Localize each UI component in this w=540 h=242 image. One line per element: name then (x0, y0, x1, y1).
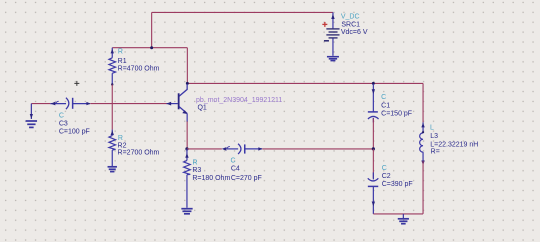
ground GND below R2 (108, 167, 117, 172)
capacitor C1 (368, 84, 379, 122)
svg-text:C=100 pF: C=100 pF (59, 129, 90, 136)
ground GND at C3 input (26, 104, 37, 128)
svg-text:R2: R2 (118, 142, 127, 149)
wire C4 to tank mid node (262, 148, 373, 150)
wire top supply rail (152, 11, 333, 13)
wire R1-top to collector column (112, 47, 187, 49)
ground GND below R3 (181, 209, 192, 214)
svg-text:L=22.32219 nH: L=22.32219 nH (430, 142, 478, 149)
svg-text:V_DC: V_DC (341, 14, 360, 21)
wire base wire from C3 to Q1 (90, 103, 167, 105)
label minus sign (324, 40, 329, 42)
wire emitter down to node (186, 121, 188, 148)
resistor R3 (184, 149, 191, 208)
svg-text:C: C (231, 158, 236, 165)
transistor Q1 base pin arrow (167, 103, 178, 105)
transistor Q1 emitter lead (179, 107, 187, 114)
svg-text:C2: C2 (382, 173, 391, 180)
label plus sign (322, 22, 327, 27)
svg-text:R=180 Ohm: R=180 Ohm (192, 175, 230, 182)
wire rail drop to R1 node (151, 12, 153, 47)
wire collector node to tank top (187, 82, 423, 84)
voltage source SRC1 battery plates (326, 29, 339, 38)
transistor Q1 collector lead (179, 84, 187, 96)
svg-text:C: C (381, 94, 386, 101)
svg-text:L3: L3 (430, 133, 438, 140)
capacitor C2 (368, 172, 379, 214)
node junction dot tank mid (372, 147, 375, 150)
wire tank right column top (422, 83, 424, 122)
svg-text:Q1: Q1 (197, 105, 206, 112)
voltage source SRC1 lead from rail (332, 12, 334, 28)
wire tank bottom (373, 213, 423, 215)
svg-text:R: R (118, 135, 123, 142)
svg-text:R=4700 Ohm: R=4700 Ohm (118, 66, 160, 73)
svg-text:R1: R1 (118, 58, 127, 65)
wire emitter node to C4 (187, 148, 222, 150)
svg-text:Vdc=6 V: Vdc=6 V (341, 29, 368, 36)
resistor R2 (109, 130, 116, 167)
node junction dot tank top C1 (372, 82, 375, 85)
wire tank right column bottom (422, 161, 424, 214)
svg-text:R: R (193, 160, 198, 167)
transistor Q1 base bar (178, 93, 180, 109)
svg-text:R=2700 Ohm: R=2700 Ohm (118, 150, 160, 157)
node origin cross marker (74, 81, 79, 86)
node junction dot collector (186, 82, 189, 85)
svg-text:C: C (59, 113, 64, 120)
svg-text:R3: R3 (192, 167, 201, 174)
wire C3 left stub (31, 103, 50, 105)
wire collector drop (186, 48, 188, 84)
voltage source SRC1 bottom lead (332, 38, 334, 55)
inductor L3 (420, 122, 423, 160)
svg-text:C=270 pF: C=270 pF (231, 175, 262, 182)
svg-text:L: L (430, 125, 434, 132)
svg-text:C=150 pF: C=150 pF (381, 110, 412, 117)
wire R1 bottom through base node to R2 (111, 85, 113, 130)
svg-text:C3: C3 (59, 120, 68, 127)
svg-text:C4: C4 (231, 166, 240, 173)
node junction dot at rail drop (150, 46, 153, 49)
ground GND below SRC1 (327, 57, 339, 61)
ground GND tank bottom (398, 214, 409, 224)
svg-text:C: C (382, 165, 387, 172)
svg-text:R=: R= (431, 149, 440, 156)
wire C1 to mid node (372, 118, 374, 148)
svg-text:pb_mot_2N3904_19921211: pb_mot_2N3904_19921211 (196, 97, 282, 104)
resistor R1 (109, 48, 116, 85)
svg-text:C=390 pF: C=390 pF (382, 181, 413, 188)
node junction dot emitter node (185, 147, 188, 150)
capacitor C4 (227, 144, 262, 154)
svg-text:SRC1: SRC1 (341, 21, 360, 28)
svg-text:R: R (118, 49, 123, 56)
wire mid node to C2 (372, 149, 374, 178)
svg-text:C1: C1 (381, 102, 390, 109)
capacitor C3 (50, 98, 90, 109)
